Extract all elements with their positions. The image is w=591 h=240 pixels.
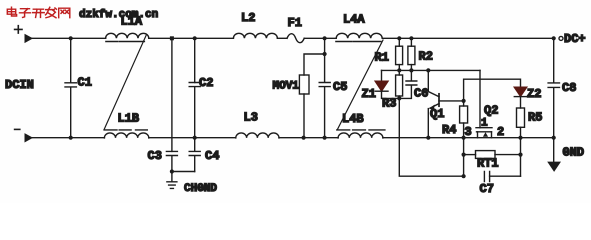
capacitor C7 [484,172,520,182]
svg-text:CHGND: CHGND [184,183,217,195]
node: C2 bottom rail junction [193,136,197,140]
svg-text:2: 2 [497,125,504,139]
fuse F1 [287,34,304,43]
svg-text:Q1: Q1 [430,107,444,121]
svg-text:C1: C1 [78,76,92,90]
wire: top rail junction down to MOV1 connector [324,38,326,54]
svg-text:C4: C4 [205,149,219,163]
wire: C3 to C4 bottom connector [172,171,195,173]
wire: bottom rail L4B to GND node [383,137,554,139]
svg-text:C3: C3 [148,149,162,163]
chassis ground CHGND symbol [167,182,177,189]
svg-text:R5: R5 [528,111,542,125]
wire: bottom rail L1B to L3 [149,137,236,139]
wire: C3 branch line from top rail [171,38,173,151]
resistor R3 [396,70,403,100]
svg-text:Q2: Q2 [484,104,498,118]
wire: bottom rail to RT1/C7 left leg [463,138,465,177]
resistor R1 [396,36,403,72]
svg-text:L3: L3 [244,111,258,125]
svg-text:R1: R1 [375,51,389,65]
site title 电子开发网 (red) [7,7,70,18]
svg-text:C2: C2 [199,76,213,90]
zener diode Z2 [514,87,526,96]
wire: RT1/C7 right leg to bottom rail [520,138,522,177]
resistor R5 [517,97,525,140]
svg-text:dzkfw.com.cn: dzkfw.com.cn [79,9,158,21]
wire: F1 to L4A [304,37,336,39]
node: MOV1/C5 connector junction [323,52,327,56]
node: C1 top [69,36,73,40]
svg-text:C8: C8 [562,81,576,95]
L4A core bars [336,41,381,43]
inductor L2 [233,33,277,38]
svg-text:R4: R4 [442,123,456,137]
svg-text:RT1: RT1 [477,157,499,171]
wire: C2/C4 branch line [194,38,196,82]
resistor R2 [408,36,415,72]
svg-text:GND: GND [563,146,585,160]
+ sign [15,26,22,33]
MOSFET Q2 [476,128,492,138]
L1B core bars [104,129,147,131]
wire: L2 to F1 [277,37,287,39]
svg-text:L4A: L4A [343,13,365,27]
svg-text:L1A: L1A [121,15,143,29]
node: C1 bottom [69,136,73,140]
wire: bottom rail segment from - terminal to L1B [30,137,104,139]
resistor R4 [460,99,468,140]
node: C3/C4 ground junction [170,169,174,173]
transformer T2 core diagonal [338,40,384,129]
ground GND arrow [547,138,561,172]
wire: MOV1 bottom lead [303,94,305,138]
capacitor C3 [166,151,177,181]
- sign [15,128,20,130]
transistor Q1 [426,68,463,139]
inductor L1B [104,133,148,138]
L1A core bars [106,41,144,43]
svg-text:L4B: L4B [342,112,364,126]
svg-text:Z1: Z1 [362,87,376,101]
wire: Z1/R3/C6 node down to bottom loop [399,98,463,176]
svg-text:R3: R3 [382,97,396,111]
svg-text:MOV1: MOV1 [273,81,300,93]
inductor L3 [236,133,279,138]
node: MOV1 bottom [302,136,306,140]
inductor L4B [338,133,383,138]
svg-text:L1B: L1B [118,112,140,126]
svg-text:1: 1 [481,118,488,130]
svg-text:Z2: Z2 [527,87,541,101]
thermistor RT1 [464,151,521,159]
wire: MOV1 top connector [304,54,325,75]
node: RT1 right [518,153,522,157]
svg-text:F1: F1 [288,16,302,30]
capacitor C8 [548,36,559,140]
- terminal arrow [25,134,31,141]
capacitor C6 [399,70,417,98]
capacitor C1 [65,38,76,137]
MOSFET Q2 gate lead from mid rail [479,70,481,127]
+ terminal arrow [25,35,31,42]
wire: R4 node up and over to Z2 [464,79,521,101]
wire: mid rail [382,69,481,71]
zener diode Z1 [375,70,399,98]
node: C5 bottom [323,136,327,140]
wire: top rail L4A to DC+ node [382,37,554,39]
svg-text:DC+: DC+ [564,32,586,46]
wire: top rail L1A to L2 [149,37,234,39]
svg-text:L2: L2 [241,11,255,25]
svg-text:DCIN: DCIN [5,78,34,92]
node: C3 top [170,36,174,40]
capacitor C4 [189,138,200,172]
svg-text:C5: C5 [333,80,347,94]
svg-text:R2: R2 [419,50,433,64]
capacitor C2 [189,83,200,138]
node: RT1 left [462,153,466,157]
transformer T1 core diagonal [104,35,146,130]
node: MOV1/C5 top rail junction [323,36,327,40]
L4B core bars [337,129,385,131]
svg-text:3: 3 [465,125,472,139]
wire: bottom rail L3 to L4B [279,137,338,139]
inductor L4A [336,33,382,38]
varistor MOV1 [299,75,309,94]
node: C7 left [462,174,466,178]
DC+ terminal circle [559,36,563,40]
svg-text:C6: C6 [414,87,428,101]
node: C2 top [193,36,197,40]
svg-text:C7: C7 [480,182,494,196]
inductor L1A [106,33,149,38]
capacitor C5 [319,54,330,138]
wire: top rail segment from + terminal to L1A [30,37,106,39]
